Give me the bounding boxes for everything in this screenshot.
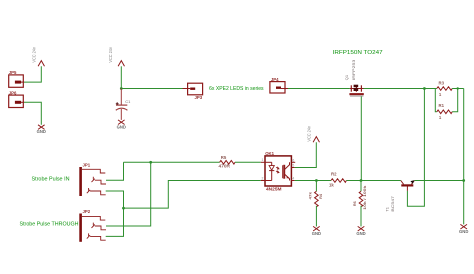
svg-text:VCC 24v: VCC 24v [307,126,312,142]
svg-text:IRFP253: IRFP253 [351,60,356,81]
node junction rail/C1 [120,87,123,90]
wire VCC to rail [120,66,122,88]
supply VCC 24v (left) [32,47,45,67]
connector JP3 [188,83,203,100]
svg-text:JP4: JP4 [271,77,279,82]
wire cathode path [124,181,261,209]
svg-text:R6: R6 [353,201,357,206]
wire rail to JP3 [121,88,182,90]
wire gate down [360,96,362,180]
node gate/R6 [360,179,363,182]
label Q1 IRFP253 [344,60,356,81]
pin stub JP3 [183,88,191,90]
ground (R6) [356,226,365,235]
supply VCC 24v (opto) [307,126,320,143]
svg-text:6: 6 [292,158,294,162]
wire R3 to right rail [452,88,464,90]
wire JP1 pin3 down [106,191,124,208]
opto pin stubs [261,162,296,180]
supply VCC 24v (C1 branch) [108,47,125,67]
resistor R2 [329,172,346,188]
resistor R4 [309,181,323,227]
node cathode junction [122,207,125,210]
svg-text:4N25M: 4N25M [266,187,282,192]
pin stub JP6 [21,101,24,103]
wire right rail down [463,89,465,225]
svg-text:470R: 470R [219,163,231,168]
svg-text:R3: R3 [439,81,445,86]
wire R2 to T1 [346,180,400,182]
JP2 pin 2 [92,223,107,230]
svg-text:BC547: BC547 [390,196,395,212]
svg-text:R2: R2 [331,172,337,177]
wire JP1 pin2 to anode line [106,162,124,180]
svg-text:GND: GND [459,229,468,234]
svg-text:VCC 24v: VCC 24v [108,47,113,63]
svg-text:JP2: JP2 [83,209,91,214]
ground (R4) [312,226,321,235]
resistor R1 [437,103,452,120]
wire JP2 pin2 to anode node [106,162,151,226]
svg-text:VCC 24v: VCC 24v [32,47,37,63]
wire anode line [124,161,220,163]
resistor R5 [219,155,236,168]
connector JP6 [9,91,24,108]
connector JP4 [270,77,285,93]
svg-text:GND: GND [312,231,321,236]
svg-text:GND: GND [356,231,365,236]
connector JP1 [79,162,90,196]
node R3 right [457,87,459,89]
resistor R3 [437,81,452,97]
JP1 pin 3 [87,188,106,195]
svg-text:JP5: JP5 [9,70,17,75]
svg-text:R1: R1 [439,103,445,108]
pin stub JP5 [21,81,24,83]
node R4 branch [315,179,318,182]
svg-text:6x XPE2 LEDS in series: 6x XPE2 LEDS in series [209,86,264,92]
wire R5 to opto pin1 [235,161,261,163]
connector JP2 [79,209,90,242]
ground (left) [37,125,46,134]
wire JP5 to VCC [24,66,41,82]
node drain/base link [423,87,426,90]
JP1 pin 1 [82,169,105,173]
pin stub JP4 [281,88,288,90]
svg-text:4: 4 [292,176,294,180]
ground (C1) [117,120,126,129]
connector JP5 [9,70,24,87]
svg-text:1k: 1k [329,183,334,188]
svg-text:10k / 100k: 10k / 100k [363,185,367,210]
wire R1 parallel loop [435,89,437,112]
transistor T1 [401,180,415,191]
wire drain to T1 base loop [407,89,424,207]
svg-text:2: 2 [262,176,264,180]
svg-text:C1: C1 [125,99,131,104]
wire Q1 to R3 block [364,88,437,90]
svg-text:47k: 47k [309,191,313,200]
svg-text:R5: R5 [221,155,227,160]
node emitter/rail [462,179,465,182]
svg-text:IRFP150N TO247: IRFP150N TO247 [333,50,383,56]
JP1 pin 2 [92,177,107,184]
JP2 pin 3 [87,233,106,240]
node anode/JP2 branch [149,161,152,164]
transistor Q1 MOSFET [349,85,363,96]
wire JP4 to Q1 [288,88,350,90]
opto LED [265,162,279,180]
svg-text:JP1: JP1 [83,162,91,167]
svg-text:5: 5 [292,164,294,168]
wire emitter to rail [414,180,463,182]
svg-text:Q1: Q1 [344,75,349,80]
opto phototransistor [283,162,290,180]
svg-text:GND: GND [117,124,126,129]
svg-text:Strobe Pulse IN: Strobe Pulse IN [32,176,70,182]
svg-text:1: 1 [262,158,264,162]
optocoupler OK1 [265,151,291,191]
svg-text:JP6: JP6 [9,91,17,96]
svg-text:GND: GND [37,129,46,134]
svg-text:T1: T1 [385,207,390,212]
capacitor C1 [116,89,131,120]
svg-text:OK1: OK1 [265,151,274,156]
resistor R6 [353,181,367,227]
wire VCC to opto pin5 [295,142,317,167]
label T1 BC547 [385,196,396,212]
opto pin numbers [262,158,295,180]
wire opto pin4 line [295,180,331,182]
wire JP6 to GND [24,102,41,125]
JP2 pin 1 [82,216,105,220]
wire JP2 pin3 to cathode node [106,208,124,236]
svg-text:JP3: JP3 [195,95,203,100]
svg-text:Strobe Pulse THROUGH: Strobe Pulse THROUGH [20,222,79,228]
ground (right rail) [459,224,468,233]
